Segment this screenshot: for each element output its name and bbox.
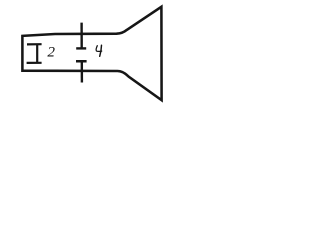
wire: outer loop (left wall, top wire, horn flare, right mouth edge, bottom wire) (22, 7, 161, 100)
capacitor C4: bottom plate (76, 60, 87, 63)
crystal element 2: top cap (27, 43, 42, 45)
label 4 (96, 45, 102, 56)
capacitor C4: top lead (80, 23, 82, 49)
crystal element 2: stem (36, 44, 38, 63)
svg-text:2: 2 (47, 43, 55, 60)
capacitor C4: bottom lead (81, 61, 83, 82)
crystal element 2: bottom cap (27, 62, 42, 64)
capacitor C4: top plate (76, 47, 86, 49)
